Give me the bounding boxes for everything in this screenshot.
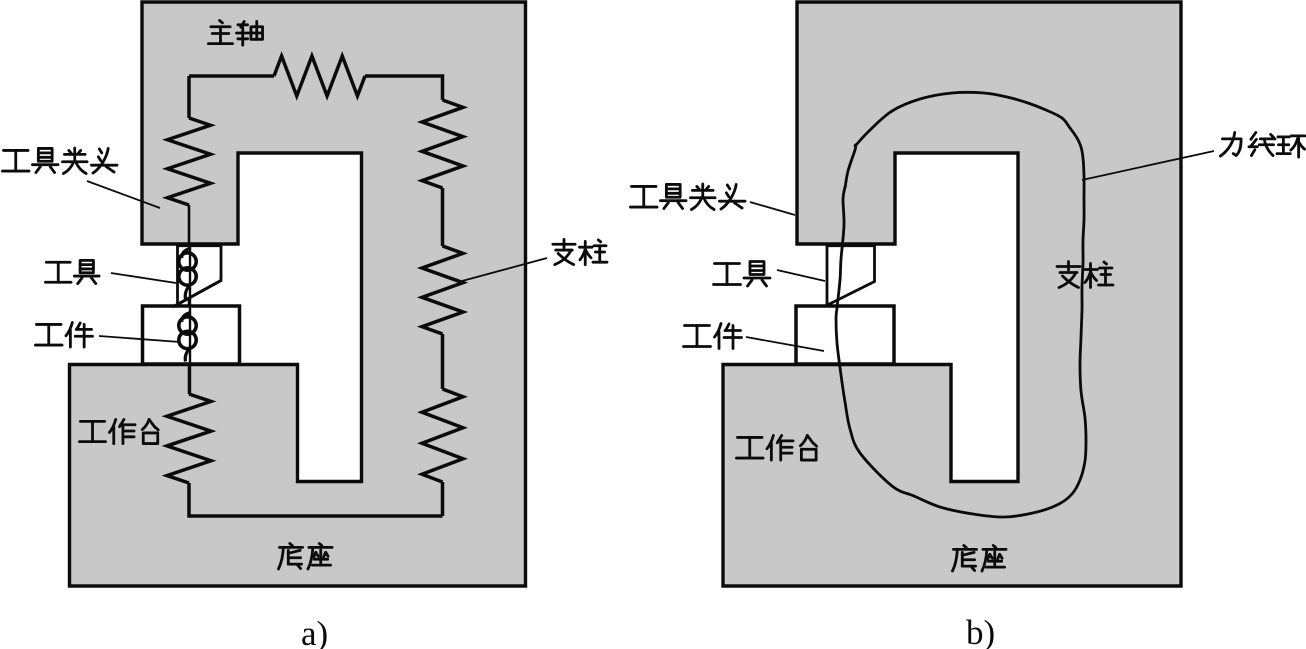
leader column a — [462, 258, 547, 281]
spring column middle right — [422, 246, 463, 334]
tool polygon a — [178, 246, 222, 305]
leader tool-holder a — [87, 181, 160, 208]
machine frame body (C-frame gray) — [70, 2, 526, 586]
coil spring tool a — [179, 253, 196, 270]
svg-text:a): a) — [301, 614, 328, 649]
label dizuo a — [278, 543, 332, 569]
label lixianhuan b — [1220, 132, 1305, 157]
spring spindle (zhu zhou) horizontal — [274, 56, 365, 96]
label gongjujiatou a — [2, 148, 117, 174]
label gongju a — [45, 260, 99, 283]
wire left bottom — [189, 483, 443, 516]
label zhizhu a — [553, 239, 607, 264]
label gongju b — [714, 262, 771, 287]
workpiece box b — [796, 306, 894, 364]
wire right chain 2 — [441, 334, 445, 389]
workpiece box a — [143, 306, 240, 364]
wire right bottom — [441, 482, 445, 516]
leader force loop b — [1082, 151, 1214, 180]
force loop curve b — [836, 92, 1086, 517]
spring column upper right — [422, 100, 463, 188]
spring tool-holder left — [168, 118, 211, 205]
wire top horizontal left — [189, 74, 274, 78]
leader workpiece a — [99, 336, 180, 342]
leader tool-holder b — [750, 202, 795, 215]
leader workpiece b — [746, 337, 824, 351]
wire right chain 1 — [441, 188, 445, 246]
wire left chain middle — [188, 205, 191, 394]
label gongjian b — [684, 324, 742, 349]
label gongjian a — [35, 322, 92, 347]
wire top horizontal right — [365, 76, 443, 100]
tool polygon b — [827, 246, 875, 304]
svg-text:b): b) — [966, 613, 995, 649]
label gongzuotai b — [736, 435, 816, 460]
label gongjujiatou b — [630, 184, 745, 210]
leader tool b — [777, 270, 825, 281]
spring worktable left — [167, 394, 211, 483]
leader tool a — [111, 273, 176, 283]
spring column lower right — [422, 389, 463, 482]
label gongzuotai a — [79, 419, 158, 443]
wire top-left vertical — [187, 76, 191, 118]
machine frame body b — [723, 2, 1181, 586]
coil spring workpiece a — [179, 317, 196, 334]
tool cutting-edge diagonal a — [173, 281, 222, 308]
label zhizhu b — [1057, 262, 1113, 288]
label zhuzhou a — [208, 20, 262, 45]
label dizuo b — [952, 545, 1006, 571]
wire through tool/workpiece a — [189, 245, 191, 394]
